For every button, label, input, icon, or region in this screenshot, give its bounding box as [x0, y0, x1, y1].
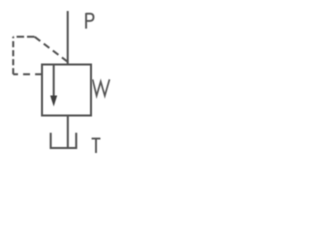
pilot line dashed: bottom horizontal into valve left side [13, 73, 42, 75]
label T [92, 138, 101, 153]
pilot line dashed: diagonal tap to P junction [35, 37, 68, 62]
label P [86, 13, 93, 29]
pilot line dashed: left vertical [12, 37, 14, 74]
tank symbol [51, 133, 76, 148]
label W (spring/setting) [93, 79, 110, 95]
flow-path arrow inside valve [53, 65, 55, 97]
valve body (envelope square) [42, 65, 91, 116]
wire P supply line [67, 11, 69, 65]
wire T return line [67, 116, 69, 148]
pilot line dashed: top horizontal [13, 36, 34, 38]
